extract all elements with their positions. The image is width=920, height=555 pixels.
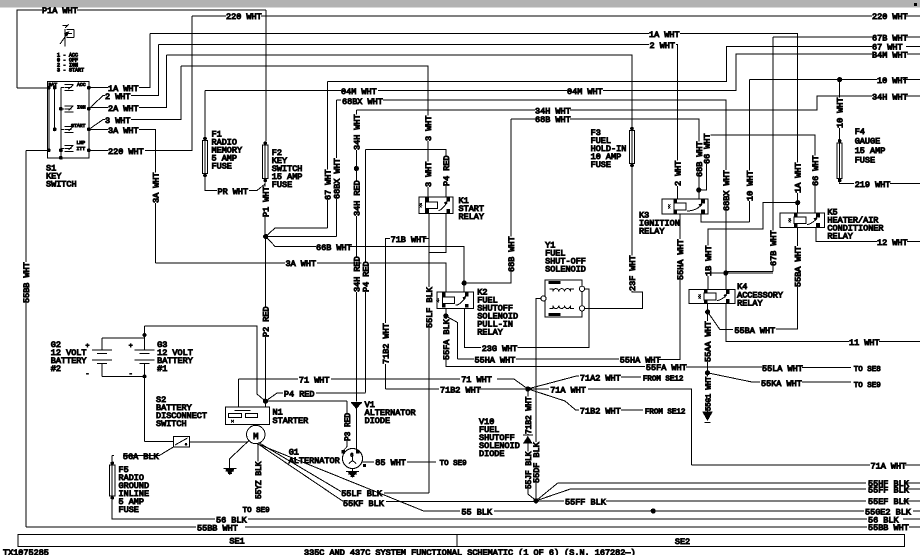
wire 71B2 / V10 diode / 55JF [527,389,529,435]
svg-text:M: M [253,432,258,442]
wire 11 WHT [726,304,849,342]
svg-text:#1: #1 [157,364,167,374]
S1 contacts [61,85,74,91]
battery G3 [134,326,154,442]
svg-text:TO SE8: TO SE8 [854,366,881,374]
wire 67B WHT [726,37,920,271]
wire S2 to starter motor [190,441,247,443]
wire 66B WHT fan [266,237,316,247]
wire 2A WHT from S1 [89,106,108,108]
svg-text:55BB WHT: 55BB WHT [868,523,909,533]
label 10 WHT vertical [745,170,753,201]
svg-text:15 AMP: 15 AMP [855,146,886,156]
svg-text:68B WHT: 68B WHT [535,115,571,125]
wire PR WHT [205,177,217,190]
Y1 hold coil [549,306,574,309]
svg-text:ACC: ACC [77,82,86,88]
svg-text:55LA WHT: 55LA WHT [762,364,803,374]
svg-text:55BB WHT: 55BB WHT [22,262,32,303]
svg-text:220 WHT: 220 WHT [872,12,908,22]
svg-text:55FF BLK: 55FF BLK [565,498,607,508]
svg-text:66 WHT: 66 WHT [703,133,713,164]
label P3 RED vertical [343,413,351,441]
label P4 RED vertical K1 [442,155,450,186]
svg-text:SWITCH: SWITCH [46,180,77,190]
svg-text:55FA BLK: 55FA BLK [442,318,452,360]
wire fan to 68BX [266,236,337,238]
wire 219 WHT [840,182,854,183]
svg-text:1A WHT: 1A WHT [649,30,680,40]
svg-text:1B WHT: 1B WHT [704,245,714,276]
wire P3 RED [343,401,347,450]
wire 1A WHT from S1 [89,87,108,89]
label 55FA BLK vertical [442,319,450,360]
junction 55 BLK [651,508,656,513]
wire M ground branch [230,441,249,469]
svg-text:67B WHT: 67B WHT [872,33,908,43]
svg-text:55HA WHT: 55HA WHT [475,356,516,366]
svg-text:220 WHT: 220 WHT [108,147,144,157]
wire 1A to K5 coil [797,203,799,213]
label 55LF BLK vertical [425,287,433,328]
junction K2 coil return [443,313,448,318]
svg-text:56A BLK: 56A BLK [123,452,160,462]
label 68BX WHT vertical [332,158,340,199]
wire 55DF BLK from Y1 [536,298,541,500]
wire 55HA WHT [458,358,475,360]
wire 56 BLK [112,500,215,519]
wire 3 WHT from S1 [89,120,105,130]
label 66 WHT vertical 2 [811,155,819,186]
svg-text:RELAY: RELAY [737,299,763,309]
wire 2A WHT to F3 [167,55,633,128]
svg-text:335C AND 437C SYSTEM FUNCTIONA: 335C AND 437C SYSTEM FUNCTIONAL SCHEMATI… [304,548,636,555]
label 71B2 WHT vertical 2 [524,397,532,434]
label 55BB WHT vertical [22,262,30,303]
label 34H RED vertical [352,180,360,216]
svg-text:3A WHT: 3A WHT [152,172,162,203]
wire 12 WHT [816,228,877,242]
wire fan to 67 WHT [266,228,328,237]
junction 71 fan [525,386,530,391]
junction 55KA tap [705,370,710,375]
wire 66 WHT [699,135,815,213]
svg-text:P1 WHT: P1 WHT [262,186,272,217]
svg-text:GAUGE: GAUGE [855,137,881,147]
svg-text:55KA WHT: 55KA WHT [761,379,802,389]
S1 terminal dots [47,86,51,90]
svg-text:F4: F4 [855,127,865,137]
svg-text:P2 RED: P2 RED [262,306,272,337]
connector box SE1/SE2 [18,535,904,547]
svg-text:71A WHT: 71A WHT [871,461,907,471]
label 67 WHT vertical [324,169,332,200]
svg-text:RELAY: RELAY [459,212,485,222]
wire 23G WHT [465,308,481,347]
svg-text:B4M WHT: B4M WHT [872,51,908,61]
svg-text:85 WHT: 85 WHT [375,458,406,468]
diode V10 [523,436,533,444]
wire 56A BLK [123,447,173,456]
wire 10 WHT to F4 [839,80,841,141]
svg-text:55YZ BLK: 55YZ BLK [256,461,264,499]
solenoid Y1 [545,280,582,317]
svg-text:71B2 WHT: 71B2 WHT [580,407,621,417]
label 1B WHT vertical [704,245,712,276]
svg-text:55BB WHT: 55BB WHT [197,523,238,533]
svg-text:71B2 WHT: 71B2 WHT [526,396,534,434]
svg-text:55FF BLK: 55FF BLK [868,485,910,495]
S1 internal rails [17,88,61,158]
svg-text:68B WHT: 68B WHT [507,236,517,272]
wire to K2 contact top [463,283,465,292]
battery G2 [92,338,112,377]
svg-text:04M WHT: 04M WHT [341,87,377,97]
wire 3A WHT from S1 [89,128,108,130]
junction K4 coil return [705,309,710,314]
svg-text:66 WHT: 66 WHT [811,155,821,186]
svg-text:55LF BLK: 55LF BLK [425,286,435,328]
fuse F5 [110,461,114,465]
svg-text:6: 6 [350,453,353,459]
relay K3 [662,199,708,214]
wire battery feed to starter [145,326,266,401]
wire diode to alternator [355,409,357,449]
svg-text:55 BLK: 55 BLK [461,508,493,518]
svg-text:SWITCH: SWITCH [156,419,187,429]
svg-text:LMP: LMP [77,140,86,146]
wire 220 WHT from S1 [89,150,108,152]
svg-text:FUSE: FUSE [591,160,611,170]
svg-text:FUSE: FUSE [855,156,875,166]
svg-text:2A WHT: 2A WHT [108,104,139,114]
wire P2 RED [264,237,266,402]
wire 55BB WHT left vertical [25,151,27,527]
wire 55LF BLK vertical [428,214,430,493]
fuse F4 [838,139,842,143]
wire 71B WHT [386,239,429,389]
svg-text:55GE2 BLK: 55GE2 BLK [865,507,912,517]
junction 68B/66B above K2 [462,281,467,286]
svg-text:55BA WHT: 55BA WHT [793,246,803,287]
label 67B WHT vertical [769,230,777,266]
junction 10 WHT / F4 [837,77,842,82]
label 55HA WHT vertical [676,239,684,280]
svg-text:SOLENOID: SOLENOID [545,264,586,274]
svg-text:71A2 WHT: 71A2 WHT [580,373,621,383]
svg-text:P4 RED: P4 RED [442,155,452,186]
svg-text:P4 RED: P4 RED [362,261,372,292]
wire 55HF BLK [536,483,866,501]
wire 34H WHT / 34H RED vertical [355,110,357,401]
svg-text:12 WHT: 12 WHT [877,238,908,248]
svg-text:TO SE9: TO SE9 [854,382,881,390]
svg-text:3A WHT: 3A WHT [108,126,139,136]
wire battery plus bus [102,337,145,339]
junction starter feed [263,399,268,404]
svg-text:68BX WHT: 68BX WHT [332,158,342,199]
wire 1B WHT [708,203,798,290]
label 23F WHT vertical [628,255,636,291]
wire 55KF BLK [258,444,344,502]
svg-text:04M WHT: 04M WHT [567,87,603,97]
wire to K4 contact top [725,273,727,290]
wire 55FA WHT [446,316,645,366]
svg-text:55EF BLK: 55EF BLK [868,497,910,507]
connector arrow 55G1 [703,412,712,420]
svg-text:71 WHT: 71 WHT [461,375,492,385]
svg-text:TO SE9: TO SE9 [243,507,270,515]
wire 68BX WHT [336,100,726,273]
svg-text:71B2 WHT: 71B2 WHT [440,385,481,395]
svg-text:55JF BLK: 55JF BLK [526,451,534,489]
wire K3 contact to 10 WHT [701,214,749,222]
svg-text:FROM SE12: FROM SE12 [643,375,684,383]
label 1A WHT vertical [794,162,802,193]
wire G1 to ground [352,469,354,472]
wire 55YZ BLK [257,444,259,498]
label P1 WHT vertical [262,186,270,217]
svg-text:71 WHT: 71 WHT [299,376,330,386]
svg-text:RELAY: RELAY [827,232,853,242]
S1 rotary switch symbol [60,25,74,47]
label 10 WHT vertical 2 [836,97,844,128]
wire 23F WHT [585,167,643,308]
svg-text:55LF BLK: 55LF BLK [341,489,383,499]
wire to P3 corner [265,400,347,402]
svg-text:RELAY: RELAY [639,227,665,237]
svg-text:71B WHT: 71B WHT [391,235,427,245]
window top bar [0,0,920,8]
svg-text:11 WHT: 11 WHT [849,338,880,348]
svg-text:P4 RED: P4 RED [284,389,315,399]
wire 34H WHT [356,96,920,110]
svg-text:FUSE: FUSE [119,505,139,515]
wire 55LF BLK [259,443,342,492]
label 55YZ BLK vertical [254,462,262,499]
wire P1A WHT [17,10,266,88]
svg-text:55G1 WHT: 55G1 WHT [705,376,713,411]
wire 55BB WHT bottom [26,526,196,528]
svg-text:STARTER: STARTER [273,416,309,426]
svg-text:3 WHT: 3 WHT [424,161,434,187]
svg-text:23F WHT: 23F WHT [628,255,638,291]
wire 68B WHT [464,119,699,283]
svg-text:67B WHT: 67B WHT [769,230,779,266]
svg-text:DIODE: DIODE [479,449,505,459]
svg-text:START: START [71,123,86,129]
label 3 WHT vertical upper [424,116,432,142]
wire battery minus bus [102,376,145,378]
svg-text:66B WHT: 66B WHT [316,243,352,253]
wire into N1 [264,401,266,407]
svg-text:55KF BLK: 55KF BLK [343,499,385,509]
svg-text:TO SE9: TO SE9 [440,460,467,468]
wire battery minus to S2 [145,441,174,443]
wire K1 contact return elbow [429,214,446,253]
junction K4 contact feed [723,270,728,275]
svg-text:FUSE: FUSE [212,162,232,172]
wire 71 WHT [239,379,298,407]
relay K2 [437,292,474,308]
label 55JF BLK vertical [524,452,532,489]
svg-text:PR WHT: PR WHT [218,187,249,197]
svg-text:34H RED: 34H RED [352,180,362,216]
wire 84M WHT [205,54,920,90]
svg-text:71A WHT: 71A WHT [550,385,586,395]
svg-text:RELAY: RELAY [477,328,503,338]
label 68BX WHT vertical 2 [722,170,730,211]
label P2 RED vertical [262,306,270,337]
label 34H RED vertical 2 [352,256,360,292]
svg-text:2 WHT: 2 WHT [673,160,683,186]
svg-text:FUSE: FUSE [272,180,292,190]
wire P1 WHT [264,182,266,236]
wire 71B2 WHT from SE12 [528,389,579,410]
wire to K3 coil top [698,190,700,199]
label 66 WHT vertical [703,133,711,164]
wire 55FF BLK upper [536,489,866,501]
junction key switch power fan [263,234,268,239]
wire P4 RED vertical [365,150,367,393]
svg-text:55HA WHT: 55HA WHT [620,356,661,366]
wire K2 coil bottom [445,308,447,316]
label 71B2 WHT vertical [382,323,390,364]
wire 85 WHT [363,461,375,463]
svg-text:P1A WHT: P1A WHT [42,6,78,16]
svg-text:IGN: IGN [77,104,86,110]
relay K4 [689,290,735,304]
svg-text:68BX WHT: 68BX WHT [342,97,383,107]
svg-text:3 WHT: 3 WHT [424,115,434,141]
ground under G1 [346,472,359,477]
svg-text:3 - START: 3 - START [57,67,84,73]
wire 71A WHT [528,388,549,390]
label P4 RED vertical [362,261,370,292]
label 55G1 WHT vertical [703,376,711,411]
label 55AA WHT vertical [704,321,712,362]
svg-text:TX1075285: TX1075285 [3,548,49,555]
label 68B WHT vertical 2 [695,141,703,177]
label 3 WHT vertical lower [424,162,432,188]
wire 2 WHT from S1 [89,96,105,109]
relay K5 [780,213,825,228]
starter motor M [247,425,265,443]
svg-text:+: + [129,342,133,349]
svg-text:220 WHT: 220 WHT [226,12,262,22]
diode V1 [351,402,362,404]
svg-text:2 WHT: 2 WHT [105,92,131,102]
svg-text:10 WHT: 10 WHT [836,97,846,128]
wire 55FA chain to 55HA [446,316,458,359]
wire P4 RED row [265,393,283,401]
svg-text:68BX WHT: 68BX WHT [722,170,732,211]
wire 55BA WHT [708,312,733,329]
junction battery plus [143,333,147,337]
svg-text:55BA WHT: 55BA WHT [734,326,775,336]
starter N1 [226,407,270,425]
svg-text:SE2: SE2 [675,537,690,547]
svg-text:DIODE: DIODE [365,416,391,426]
svg-text:34H WHT: 34H WHT [352,114,362,150]
label 34H WHT vertical [352,114,360,150]
wire 1A WHT top [150,33,798,202]
label 55DF BLK vertical [532,442,540,483]
wire 3 WHT to K1 [181,66,428,199]
svg-text:34H WHT: 34H WHT [872,93,908,103]
wire 3A WHT row [156,262,286,264]
svg-text:219 WHT: 219 WHT [855,180,891,190]
wire 67 WHT long [328,46,920,228]
svg-text:SE1: SE1 [229,537,244,547]
junction 1A at K5 [795,200,800,205]
key switch S1 box [47,81,88,157]
svg-text:3A WHT: 3A WHT [286,259,317,269]
svg-text:BAT: BAT [49,82,58,88]
wire P1A to F2 [265,10,267,141]
relay K1 [419,197,453,214]
svg-text:#2: #2 [51,364,61,374]
label 68B WHT vertical [507,236,515,272]
wire 84M to F1 [204,90,206,136]
svg-text:1A WHT: 1A WHT [794,162,804,193]
svg-text:23G WHT: 23G WHT [482,344,518,354]
svg-text:55HA WHT: 55HA WHT [676,239,686,280]
svg-text:ITT: ITT [77,146,86,152]
wire 71A2 WHT [528,376,579,389]
svg-text:FROM SE12: FROM SE12 [645,409,686,417]
fuse F3 [630,127,634,131]
wire 10 WHT [749,80,920,222]
label 2 WHT vertical [673,161,681,187]
junction 68B/66 above K3 [696,187,701,192]
wire P4 RED to K1 [366,150,447,197]
fuse F2 [263,141,267,145]
svg-text:P3 RED: P3 RED [345,413,353,441]
wire 220 WHT top [192,15,920,17]
svg-text:71B2 WHT: 71B2 WHT [382,323,392,364]
label 3A WHT vertical [152,172,160,203]
Y1 pull coil [549,289,574,292]
wire 71B2 WHT label row [386,388,440,390]
svg-text:3 WHT: 3 WHT [105,116,131,126]
svg-text:55AA WHT: 55AA WHT [704,321,714,362]
wire 55EF BLK [536,500,564,502]
wire 55KA WHT [707,373,760,382]
svg-text:2 WHT: 2 WHT [650,41,676,51]
svg-text:10 WHT: 10 WHT [745,170,755,201]
fuse F1 [203,137,207,141]
alternator G1 [343,449,363,469]
junction 34H [354,166,359,171]
svg-text:10 WHT: 10 WHT [877,76,908,86]
junction battery minus [143,375,147,379]
ground under M [223,469,236,474]
wire 55 BLK [257,444,460,511]
wire 2 WHT top [159,44,678,199]
label 55BA WHT vertical [793,246,801,287]
wire 55G1 WHT [707,376,709,412]
wire 67B/68BX junction row [708,272,773,274]
svg-text:-: - [86,370,90,377]
junction bottom BLK fan [533,498,538,503]
wire K5 coil return 55BA [797,228,799,245]
switch S2 [173,436,189,447]
